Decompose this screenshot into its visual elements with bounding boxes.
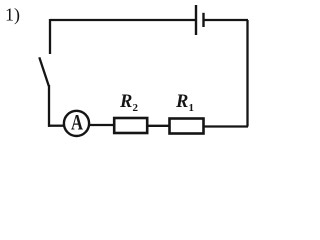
wire bottom right (right corner to R1) [204, 125, 248, 127]
wire left lower vertical [48, 85, 50, 127]
ammeter A1 [64, 111, 89, 136]
svg-text:1: 1 [189, 102, 195, 114]
switch S1 blade [39, 57, 49, 86]
svg-text:2: 2 [133, 102, 139, 114]
resistor R2 [114, 118, 147, 133]
wire bottom left (corner to ammeter) [48, 125, 64, 127]
battery B1 long plate [195, 5, 197, 35]
wire top (corner to battery) [50, 19, 195, 21]
svg-text:1): 1) [5, 5, 20, 26]
wire right side [246, 20, 248, 127]
svg-text:R: R [119, 92, 132, 112]
wire left upper stub [49, 19, 51, 54]
wire between ammeter and R2 [89, 124, 114, 126]
svg-text:R: R [175, 92, 188, 112]
resistor R1 [170, 119, 204, 134]
wire top (battery to right corner) [204, 19, 249, 21]
svg-text:A: A [71, 110, 84, 135]
wire between R1 and R2 [148, 125, 169, 127]
battery B1 short plate [202, 13, 204, 27]
